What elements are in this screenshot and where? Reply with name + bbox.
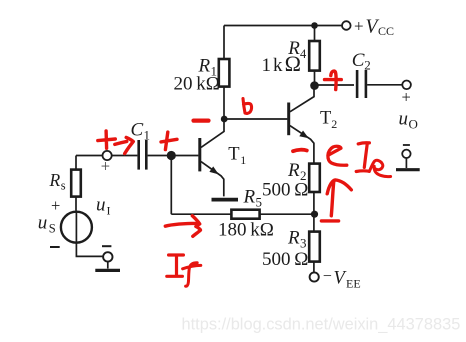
wire node b to T2 base	[224, 118, 287, 120]
terminal input bottom	[103, 252, 112, 261]
svg-text:Ω: Ω	[285, 51, 301, 76]
wire feedback left vertical	[170, 156, 172, 215]
svg-text:500 Ω: 500 Ω	[262, 180, 308, 201]
node top rail junction	[311, 22, 318, 29]
red plus right of C1	[161, 132, 177, 150]
wire node to R3	[313, 214, 315, 231]
ground input	[95, 262, 120, 271]
resistor R2	[309, 164, 320, 192]
svg-text:CC: CC	[378, 24, 394, 38]
wire C2 to output terminal	[367, 84, 402, 86]
svg-text:R: R	[49, 170, 61, 190]
node T2 collector / R4 bottom	[310, 81, 319, 90]
svg-text:EE: EE	[346, 277, 361, 291]
label C2	[352, 50, 371, 73]
svg-text:+: +	[354, 16, 364, 35]
transistor T2	[289, 89, 314, 164]
wire R4 top	[314, 26, 316, 42]
red letter e	[328, 146, 347, 165]
wire top rail VCC	[224, 25, 342, 27]
svg-text:4: 4	[300, 47, 307, 61]
label minus above input ground	[102, 245, 111, 247]
resistor R3	[309, 232, 320, 262]
resistor R1	[219, 59, 230, 87]
svg-text:5: 5	[256, 195, 263, 210]
svg-text:S: S	[49, 222, 56, 236]
wire R3 bottom	[313, 262, 315, 273]
svg-text:500 Ω: 500 Ω	[262, 249, 308, 270]
label C1	[131, 120, 151, 143]
ground output reference	[396, 145, 420, 170]
terminal -VEE	[310, 272, 319, 281]
label T2	[320, 109, 337, 131]
svg-text:20 kΩ: 20 kΩ	[174, 74, 220, 95]
svg-text:k: k	[273, 55, 283, 76]
label +VCC	[354, 16, 394, 38]
svg-text:I: I	[107, 204, 111, 218]
red minus at node b	[194, 118, 209, 122]
svg-text:+: +	[402, 87, 411, 106]
wire feedback horizontal right	[260, 213, 315, 215]
svg-text:u: u	[96, 195, 106, 216]
ground T1 emitter	[212, 198, 239, 202]
svg-text:u: u	[399, 109, 409, 130]
wire source bottom	[76, 243, 103, 257]
label uO	[399, 109, 418, 132]
transistor T1	[200, 119, 224, 196]
red arrow up at R2/R3 node	[321, 180, 351, 221]
svg-text:180 kΩ: 180 kΩ	[218, 220, 274, 241]
svg-text:C: C	[131, 120, 144, 141]
red label Ie	[356, 143, 369, 172]
svg-text:R: R	[243, 187, 256, 208]
red arrow at C2 wire	[325, 71, 342, 90]
svg-text:T: T	[228, 144, 239, 164]
wire C1 to T1 base	[148, 155, 199, 157]
svg-text:R: R	[287, 228, 300, 249]
svg-text:1: 1	[262, 55, 272, 76]
capacitor C2	[357, 70, 366, 98]
svg-text:−: −	[323, 268, 332, 285]
resistor R5	[231, 210, 259, 219]
label R1	[174, 56, 220, 95]
label R3	[262, 228, 308, 271]
node b junction	[221, 116, 228, 123]
svg-text:R: R	[287, 160, 300, 181]
svg-text:s: s	[61, 179, 66, 193]
wire R4 bottom	[314, 71, 316, 86]
label R4	[262, 38, 308, 76]
wire R1 bottom to node b	[223, 87, 225, 119]
red arrow into C1	[115, 137, 134, 153]
red label If	[167, 255, 184, 276]
svg-text:1: 1	[144, 128, 151, 143]
node R2/R3 junction	[311, 211, 318, 218]
terminal input	[103, 151, 112, 160]
label R2	[262, 160, 308, 201]
resistor Rs	[71, 170, 81, 197]
label T1	[228, 144, 246, 166]
red minus at T2 emitter	[293, 150, 307, 152]
svg-text:+: +	[101, 157, 110, 176]
wire collector node to C2	[314, 84, 354, 86]
svg-text:T: T	[320, 109, 331, 129]
label R5	[218, 187, 274, 241]
svg-text:2: 2	[364, 58, 371, 73]
svg-text:2: 2	[331, 117, 337, 131]
label source minus	[50, 246, 60, 248]
wire Rs top	[76, 156, 103, 170]
capacitor C1	[139, 140, 147, 170]
svg-text:C: C	[352, 50, 365, 71]
label uS	[38, 213, 56, 236]
svg-text:O: O	[409, 117, 418, 132]
resistor R4	[309, 41, 320, 71]
node C1 output junction	[167, 151, 176, 160]
red arrow at feedback wire	[165, 216, 200, 237]
red plus left of C1	[98, 131, 116, 148]
terminal +VCC	[342, 21, 351, 30]
wire R2 bottom to node	[313, 192, 315, 215]
wire R1 top	[223, 26, 225, 60]
wire input terminal to C1	[112, 155, 137, 157]
label uI	[96, 195, 111, 218]
svg-text:u: u	[38, 213, 48, 234]
label Rs	[49, 170, 66, 193]
svg-text:1: 1	[240, 153, 246, 167]
wire feedback horizontal left	[171, 213, 231, 215]
terminal uO +	[402, 81, 411, 90]
svg-text:+: +	[51, 196, 60, 215]
source uS	[61, 212, 92, 243]
red letter b	[243, 99, 252, 114]
wire Rs to source	[75, 197, 77, 211]
svg-text:https://blog.csdn.net/weixin_4: https://blog.csdn.net/weixin_44378835	[182, 316, 461, 334]
label -VEE	[323, 268, 361, 291]
